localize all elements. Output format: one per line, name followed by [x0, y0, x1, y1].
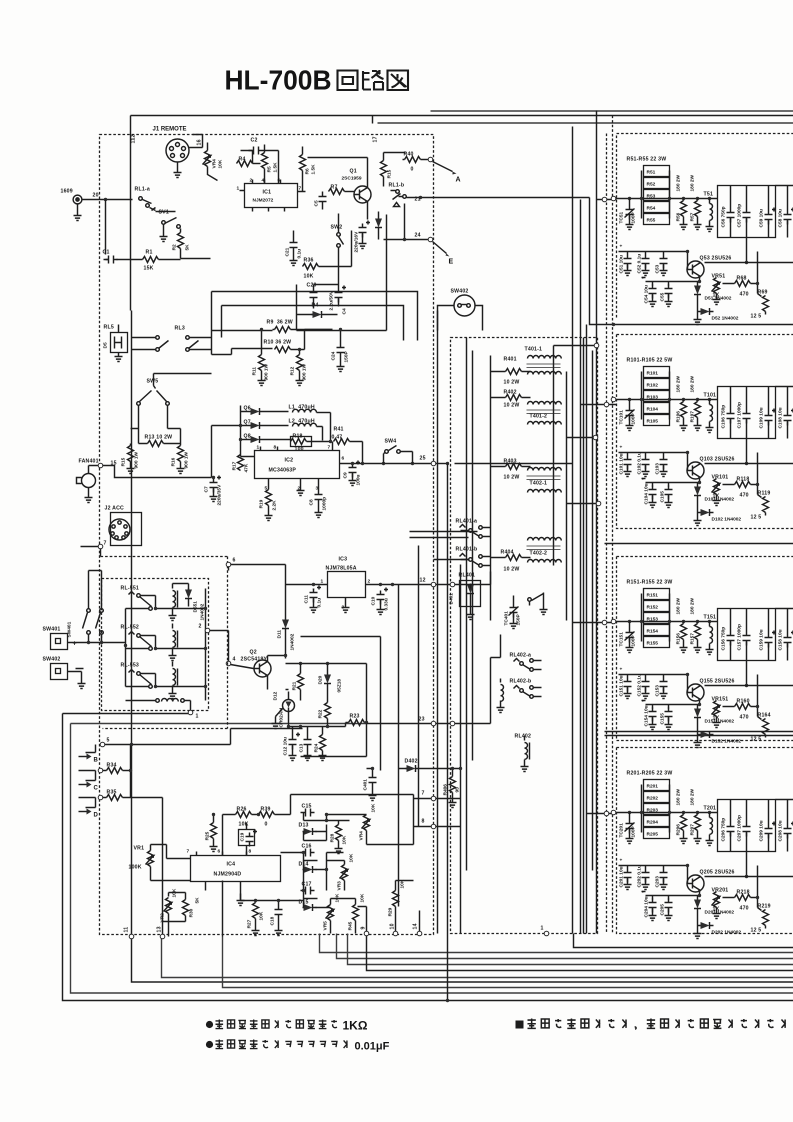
resistor R27 10K — [253, 903, 259, 919]
svg-text:10K: 10K — [360, 893, 366, 902]
svg-text:0: 0 — [265, 822, 268, 828]
PA module 2 dashed enclosure — [617, 335, 793, 529]
svg-text:D5: D5 — [103, 342, 109, 348]
wire box top rail — [747, 387, 793, 464]
terminal A — [428, 157, 433, 162]
svg-text:R157: R157 — [690, 633, 696, 645]
svg-text:R156: R156 — [676, 633, 682, 645]
resistor R55 — [644, 214, 670, 225]
capacitor C24 150P — [337, 344, 345, 358]
potentiometer VR5 10K — [328, 905, 334, 921]
svg-text:Q8: Q8 — [244, 434, 251, 440]
svg-text:C205: C205 — [660, 904, 666, 916]
svg-text:2: 2 — [199, 624, 202, 630]
svg-text:25: 25 — [420, 456, 426, 462]
svg-text:D152 1N4002: D152 1N4002 — [712, 739, 742, 745]
terminal 5 — [100, 742, 105, 747]
svg-text:TC51: TC51 — [619, 211, 625, 223]
svg-text:T51: T51 — [704, 192, 714, 198]
ground — [349, 477, 357, 486]
svg-text:7: 7 — [299, 186, 302, 192]
wire — [223, 937, 793, 988]
svg-text:Q53 2SU526: Q53 2SU526 — [700, 256, 732, 262]
svg-text:RL402-a: RL402-a — [510, 653, 532, 659]
terminal — [450, 721, 455, 726]
zener D20 05Z18 — [324, 674, 331, 688]
svg-text:1KΩ: 1KΩ — [343, 1019, 368, 1033]
ground — [342, 604, 350, 613]
svg-text:7: 7 — [187, 849, 190, 855]
svg-text:C24: C24 — [331, 351, 337, 360]
svg-text:R105: R105 — [647, 419, 659, 425]
svg-text:R402: R402 — [504, 390, 517, 396]
svg-text:R401: R401 — [504, 357, 517, 363]
svg-text:R12: R12 — [290, 366, 296, 375]
svg-text:RL-551: RL-551 — [121, 586, 140, 592]
svg-text:R6: R6 — [305, 168, 311, 174]
svg-text:16: 16 — [197, 139, 203, 145]
svg-text:C204 10u: C204 10u — [644, 896, 650, 917]
svg-text:C109 10u: C109 10u — [759, 407, 765, 428]
svg-text:2.2K: 2.2K — [272, 500, 278, 511]
svg-text:R51-R55 22 3W: R51-R55 22 3W — [627, 157, 667, 163]
diode D152 1N4002 — [698, 722, 700, 735]
svg-text:900 1W: 900 1W — [184, 451, 190, 468]
svg-text:T401-2: T401-2 — [530, 414, 548, 420]
svg-text:R155: R155 — [647, 641, 659, 647]
svg-text:C158 10u: C158 10u — [778, 629, 784, 650]
ground — [296, 377, 304, 386]
svg-text:R101: R101 — [647, 371, 659, 377]
wire box top rail — [747, 609, 793, 686]
svg-text:95: 95 — [455, 787, 461, 793]
ground — [169, 690, 177, 699]
trimmer TC51 100P — [625, 206, 635, 220]
svg-text:R51: R51 — [647, 170, 656, 176]
wire collector rail — [705, 876, 793, 878]
resistor R30 5K — [183, 900, 189, 916]
svg-text:R15: R15 — [121, 457, 127, 466]
ground — [78, 680, 86, 689]
terminal — [602, 620, 607, 625]
svg-text:R207: R207 — [690, 824, 696, 836]
diode D51 1N4002 — [697, 282, 699, 285]
terminal — [593, 435, 598, 440]
note text: teikou default 1K ohm — [216, 1020, 224, 1029]
svg-text:2.2u/50V: 2.2u/50V — [329, 290, 335, 310]
resistor R155 — [644, 637, 670, 648]
svg-text:10 2W: 10 2W — [504, 475, 520, 481]
svg-text:C56 750p: C56 750p — [721, 206, 727, 227]
svg-text:RL401-a: RL401-a — [456, 519, 478, 525]
svg-text:R36: R36 — [304, 258, 314, 264]
svg-text:C155: C155 — [660, 713, 666, 725]
svg-text:R23: R23 — [350, 714, 360, 720]
svg-text:+: + — [620, 446, 623, 451]
ground — [265, 512, 273, 521]
wire — [384, 204, 431, 240]
svg-text:R21: R21 — [292, 681, 298, 690]
ground — [304, 752, 312, 761]
ground — [85, 494, 93, 503]
diode D202 1N4002 — [698, 913, 700, 926]
capacitor C59 10u — [765, 208, 777, 225]
svg-text:C203: C203 — [655, 876, 661, 888]
svg-text:R22: R22 — [318, 709, 324, 718]
svg-text:12 5: 12 5 — [751, 928, 762, 934]
svg-text:Q6: Q6 — [244, 406, 251, 412]
diode D201 1N4002 — [697, 896, 699, 899]
svg-text:R13 10 2W: R13 10 2W — [145, 435, 173, 441]
svg-text:100P: 100P — [631, 634, 637, 646]
ground — [319, 752, 327, 761]
svg-text:CR02AM: CR02AM — [279, 708, 285, 728]
wire long vertical — [447, 738, 449, 1001]
svg-text:C4: C4 — [342, 308, 348, 314]
wire — [210, 631, 229, 662]
wire — [241, 151, 279, 184]
svg-text:12 5: 12 5 — [751, 515, 762, 521]
svg-text:0.01μF: 0.01μF — [355, 1041, 390, 1053]
wire — [81, 547, 101, 557]
arrow B — [79, 756, 87, 758]
svg-text:R30: R30 — [189, 908, 195, 917]
ground — [210, 843, 218, 852]
capacitor C51 10u — [619, 251, 688, 253]
diode D151 1N4002 — [697, 705, 699, 708]
svg-text:VR4: VR4 — [212, 159, 218, 169]
relay box dashed enclosure — [102, 579, 209, 711]
potentiometer VR4 10K — [364, 815, 370, 831]
svg-text:D52 1N4002: D52 1N4002 — [712, 316, 739, 322]
PA module 4 dashed enclosure — [617, 748, 793, 934]
diode D101 1N4002 — [697, 483, 699, 486]
ground — [275, 927, 283, 936]
svg-text:C21: C21 — [285, 247, 291, 256]
svg-text:RL1-b: RL1-b — [389, 183, 405, 189]
svg-text:RL-552: RL-552 — [121, 625, 140, 631]
svg-text:+: + — [73, 641, 77, 648]
svg-text:C53: C53 — [655, 264, 661, 273]
ground — [290, 257, 298, 266]
svg-text:Q2: Q2 — [250, 650, 257, 656]
svg-text:100K: 100K — [129, 865, 142, 871]
capacitor C57 1000p — [743, 209, 751, 223]
svg-text:1: 1 — [196, 714, 199, 720]
capacitor C4 2.2u/50V — [335, 286, 347, 303]
svg-text:NJM2072: NJM2072 — [253, 198, 274, 204]
svg-text:IC3: IC3 — [339, 557, 348, 563]
svg-text:R39: R39 — [261, 807, 271, 813]
svg-text:8: 8 — [249, 849, 252, 855]
capacitor C107 1000p — [743, 410, 751, 424]
svg-text:1: 1 — [541, 926, 544, 932]
capacitor C56 750p — [718, 186, 776, 238]
svg-text:0: 0 — [411, 167, 414, 173]
svg-text:180 2W: 180 2W — [676, 375, 682, 392]
wire top box — [131, 116, 373, 311]
svg-text:C105: C105 — [660, 491, 666, 503]
wire module input — [616, 812, 718, 814]
svg-text:7: 7 — [422, 791, 425, 797]
svg-text:1000p: 1000p — [322, 497, 328, 511]
svg-text:1: 1 — [257, 445, 260, 451]
op-amp IC1 NJM2072 — [245, 184, 298, 208]
resistor R406 95 — [450, 777, 456, 793]
capacitor C55 — [665, 285, 673, 299]
arrow D — [79, 811, 87, 813]
wire — [131, 729, 303, 937]
resistor R103 — [644, 391, 670, 402]
capacitor C108 10u — [784, 409, 793, 426]
svg-text:9: 9 — [361, 926, 367, 929]
svg-text:2: 2 — [250, 178, 253, 184]
svg-text:C104 10u: C104 10u — [644, 483, 650, 504]
svg-text:D13: D13 — [299, 823, 309, 829]
wire collector rail — [705, 463, 793, 465]
svg-text:R56: R56 — [676, 212, 682, 221]
svg-text:47K: 47K — [244, 463, 250, 472]
wire module input — [616, 621, 718, 623]
wire — [367, 935, 793, 971]
svg-text:C7: C7 — [204, 486, 210, 492]
resistor R102 — [644, 379, 670, 390]
svg-text:R104: R104 — [647, 407, 659, 413]
center unit dashed enclosure — [451, 338, 598, 934]
svg-text:12 5: 12 5 — [751, 314, 762, 320]
potentiometer VR2 10K — [166, 898, 172, 914]
terminal 15 — [98, 463, 103, 468]
svg-text:900 1W: 900 1W — [302, 363, 308, 380]
svg-text:R205: R205 — [647, 832, 659, 838]
svg-text:14: 14 — [413, 923, 419, 929]
arrow A — [433, 162, 453, 172]
wire box top rail — [747, 186, 793, 263]
wire — [189, 135, 203, 148]
wire nested corners — [212, 292, 418, 341]
capacitor C105 — [665, 486, 673, 500]
wire collector rail — [705, 262, 793, 264]
svg-text:10K: 10K — [259, 911, 265, 920]
wire module feeds — [573, 200, 617, 814]
wire bank rails — [642, 372, 670, 420]
junction — [446, 999, 449, 1002]
svg-text:C12 10u: C12 10u — [283, 737, 289, 755]
resistor R104 — [644, 403, 670, 414]
relay coil RL-551 — [173, 591, 176, 608]
svg-text:470: 470 — [740, 292, 749, 298]
svg-text:C57 1000p: C57 1000p — [737, 204, 743, 228]
svg-text:SW402: SW402 — [43, 657, 61, 663]
svg-text:R29: R29 — [388, 907, 394, 916]
relay coil RL-552 — [173, 631, 176, 648]
wire — [438, 306, 483, 331]
svg-text:TC401: TC401 — [504, 611, 510, 626]
wire — [301, 637, 381, 771]
terminal 1 — [188, 710, 193, 715]
wire — [162, 937, 793, 978]
ground — [540, 606, 548, 615]
svg-text:R101-R105 22 5W: R101-R105 22 5W — [627, 358, 673, 364]
svg-text:RL402: RL402 — [515, 734, 532, 740]
inductor — [501, 685, 504, 702]
svg-text:2: 2 — [368, 579, 371, 585]
terminal 2 — [205, 628, 210, 633]
svg-text:J1 REMOTE: J1 REMOTE — [153, 127, 187, 133]
ground — [237, 897, 245, 906]
svg-text:SW4: SW4 — [385, 439, 397, 445]
resistor R105 — [644, 415, 670, 426]
ground — [258, 377, 266, 386]
svg-text:5K: 5K — [195, 897, 201, 904]
wire bank rails — [642, 171, 670, 219]
svg-text:10K: 10K — [349, 853, 355, 862]
svg-text:R19: R19 — [259, 499, 265, 508]
wire — [605, 325, 793, 736]
resistor R15 — [381, 161, 387, 177]
capacitor C58 10u — [784, 208, 793, 225]
ground — [359, 240, 367, 249]
svg-text:+: + — [642, 891, 645, 896]
capacitor C202 0.1u — [642, 869, 650, 883]
svg-text:R15: R15 — [387, 169, 393, 178]
ground — [337, 363, 345, 372]
ground — [289, 752, 297, 761]
svg-text:C9: C9 — [343, 472, 349, 478]
capacitor C209 10u — [765, 822, 777, 839]
resistor R11 900 1W — [259, 355, 265, 371]
svg-text:6: 6 — [233, 558, 236, 564]
capacitor C104 10u — [642, 479, 689, 483]
svg-text:23: 23 — [419, 717, 425, 723]
resistor R17 47K — [238, 455, 244, 471]
svg-text:T402-2: T402-2 — [530, 551, 548, 557]
wire RL401 contact nets — [410, 532, 478, 560]
capacitor C9 100u — [349, 461, 361, 478]
svg-text:Q7: Q7 — [244, 420, 251, 426]
svg-text:R11: R11 — [252, 367, 258, 376]
svg-text:C103: C103 — [655, 463, 661, 475]
resistor R154 — [644, 625, 670, 636]
svg-text:+: + — [620, 668, 623, 673]
capacitor C8 1000p — [315, 491, 323, 505]
svg-text:470: 470 — [740, 715, 749, 721]
wire — [436, 463, 448, 465]
IC U2 MC34063P — [255, 451, 340, 479]
svg-text:VR4: VR4 — [359, 831, 365, 841]
svg-text:13: 13 — [157, 926, 163, 932]
svg-text:RL1-a: RL1-a — [135, 187, 150, 193]
wire — [86, 745, 231, 753]
svg-text:T402-1: T402-1 — [530, 481, 548, 487]
svg-text:220u/35V: 220u/35V — [217, 484, 223, 506]
svg-text:C20: C20 — [307, 283, 317, 289]
svg-text:4: 4 — [233, 657, 236, 663]
svg-text:R406: R406 — [443, 784, 449, 796]
svg-text:D: D — [94, 813, 99, 819]
svg-text:180 2W: 180 2W — [690, 597, 696, 614]
wire — [132, 331, 273, 355]
svg-text:R2: R2 — [172, 244, 178, 250]
potentiometer VR3 10K — [342, 865, 348, 881]
wire — [228, 567, 230, 571]
svg-text:180 2W: 180 2W — [690, 174, 696, 191]
capacitor C152 0.1u — [642, 678, 650, 692]
svg-text:10 2W: 10 2W — [504, 567, 520, 573]
ground — [252, 927, 260, 936]
svg-text:C10: C10 — [371, 596, 377, 605]
capacitor C155 — [665, 708, 673, 722]
terminal — [602, 197, 607, 202]
diode D52 1N4002 — [698, 299, 700, 312]
wire — [63, 714, 793, 1001]
svg-text:C11: C11 — [304, 595, 310, 604]
wire — [83, 199, 133, 201]
svg-text:10K: 10K — [342, 835, 348, 844]
resistor R51 — [644, 166, 670, 177]
wire collector node — [286, 664, 367, 757]
resistor R205 — [644, 828, 670, 839]
resistor R2 5K — [178, 233, 184, 249]
svg-text:180 2W: 180 2W — [690, 788, 696, 805]
resistor R153 — [644, 613, 670, 624]
svg-text:R27: R27 — [247, 919, 253, 928]
svg-text:R45: R45 — [348, 921, 354, 930]
svg-text:+: + — [642, 700, 645, 705]
svg-text:C2: C2 — [251, 138, 258, 144]
ground — [369, 792, 377, 801]
wire — [289, 723, 346, 727]
wire — [103, 466, 212, 478]
diode D102 1N4002 — [698, 500, 700, 513]
svg-text:C19: C19 — [240, 832, 246, 841]
resistor R101 — [644, 367, 670, 378]
svg-text:R41: R41 — [334, 427, 344, 433]
capacitor C106 750p — [718, 387, 776, 439]
resistor R45 10K — [353, 905, 359, 921]
svg-text:R202: R202 — [647, 796, 659, 802]
capacitor C157 1000p — [743, 632, 751, 646]
svg-text:7: 7 — [104, 541, 107, 547]
capacitor C154 10u — [642, 701, 689, 705]
svg-text:C209 10u: C209 10u — [759, 820, 765, 841]
svg-text:D201 1N4002: D201 1N4002 — [705, 910, 735, 916]
svg-text:A: A — [456, 177, 461, 184]
resistor R53 — [644, 190, 670, 201]
svg-text:D12: D12 — [273, 691, 279, 700]
wire module input — [616, 399, 718, 401]
svg-text:11: 11 — [124, 927, 130, 933]
svg-text:HL-700B: HL-700B — [225, 65, 332, 96]
svg-text:C107 1000p: C107 1000p — [737, 402, 743, 428]
wire — [348, 934, 793, 965]
svg-text:R54: R54 — [647, 206, 656, 212]
svg-text:R102: R102 — [647, 383, 659, 389]
ground — [127, 465, 135, 474]
resistor R22 — [325, 703, 331, 719]
svg-text:RL401-b: RL401-b — [456, 547, 478, 553]
svg-text:D402: D402 — [405, 759, 418, 765]
bottom bus wires — [63, 714, 793, 1003]
svg-text:180 2W: 180 2W — [676, 597, 682, 614]
diode D15 — [303, 904, 317, 911]
resistor R204 — [644, 816, 670, 827]
capacitor C13 — [304, 736, 312, 750]
svg-text:R68: R68 — [737, 276, 747, 282]
capacitor C6 220u/16V — [359, 221, 371, 238]
resistor R5 1.5K — [262, 153, 268, 169]
trimmer TC401 150P — [509, 604, 519, 618]
